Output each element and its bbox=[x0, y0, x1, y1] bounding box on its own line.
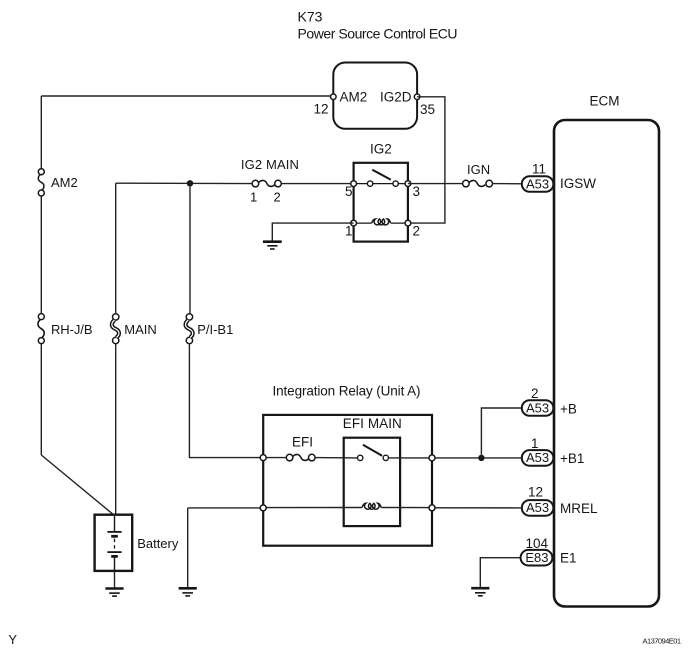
svg-text:IG2D: IG2D bbox=[380, 90, 412, 105]
pin 12 of ECU (AM2) bbox=[314, 90, 368, 117]
wire E1 to ground bbox=[480, 558, 520, 587]
relay EFI MAIN coil bbox=[362, 503, 381, 509]
connector A53 pin 12 (MREL) bbox=[522, 485, 598, 517]
relay IG2 contact (pins 5-3) bbox=[345, 170, 420, 199]
svg-text:K73: K73 bbox=[298, 9, 323, 25]
svg-text:1: 1 bbox=[250, 190, 257, 205]
relay EFI MAIN box bbox=[343, 416, 402, 526]
svg-text:AM2: AM2 bbox=[51, 175, 78, 190]
svg-text:+B: +B bbox=[560, 402, 577, 417]
svg-text:1: 1 bbox=[531, 436, 539, 451]
svg-text:3: 3 bbox=[413, 184, 421, 199]
svg-text:IG2: IG2 bbox=[370, 142, 392, 157]
fuse EFI bbox=[286, 435, 315, 461]
svg-text:EFI: EFI bbox=[292, 435, 313, 450]
svg-text:5: 5 bbox=[345, 184, 353, 199]
svg-text:P/I-B1: P/I-B1 bbox=[197, 322, 233, 337]
svg-text:RH-J/B: RH-J/B bbox=[51, 322, 93, 337]
svg-text:2: 2 bbox=[531, 386, 539, 401]
ground (IG2 relay coil) bbox=[263, 242, 282, 249]
svg-text:IG2 MAIN: IG2 MAIN bbox=[241, 157, 299, 172]
svg-text:E1: E1 bbox=[560, 551, 577, 566]
svg-text:AM2: AM2 bbox=[340, 90, 368, 105]
svg-text:2: 2 bbox=[413, 223, 421, 238]
fuse AM2 bbox=[38, 169, 77, 196]
label K73 / Power Source Control ECU title bbox=[298, 9, 458, 42]
ground (MREL circuit) bbox=[179, 588, 197, 596]
wire EFI row (through relay to +B1) bbox=[263, 457, 522, 459]
wire AM2 feed row (horizontal to IG2 MAIN / relay) bbox=[116, 182, 354, 184]
wire from ECU pin 35 (IG2D) down to IG2 relay coil pin 2 bbox=[408, 97, 445, 223]
svg-text:EFI MAIN: EFI MAIN bbox=[343, 416, 402, 431]
svg-text:A137094E01: A137094E01 bbox=[643, 637, 682, 646]
wire MREL row bbox=[188, 507, 522, 509]
svg-text:IGN: IGN bbox=[467, 162, 490, 177]
svg-text:ECM: ECM bbox=[590, 94, 620, 109]
svg-text:IGSW: IGSW bbox=[560, 176, 596, 191]
connector E83 pin 104 (E1) bbox=[521, 536, 577, 566]
node junction +B / +B1 bbox=[478, 455, 484, 461]
svg-text:12: 12 bbox=[528, 485, 543, 500]
wire P/I-B1 bus vertical bbox=[189, 183, 263, 457]
fusible link MAIN bbox=[112, 314, 157, 344]
svg-text:A53: A53 bbox=[526, 500, 549, 515]
wire MAIN bus vertical bbox=[115, 183, 117, 515]
svg-text:Integration Relay (Unit A): Integration Relay (Unit A) bbox=[273, 384, 421, 399]
svg-text:A53: A53 bbox=[526, 400, 549, 415]
svg-text:MREL: MREL bbox=[560, 501, 598, 516]
svg-text:A53: A53 bbox=[526, 450, 549, 465]
svg-text:Power Source Control ECU: Power Source Control ECU bbox=[298, 26, 458, 42]
connector A53 pin 11 (IGSW) bbox=[522, 162, 596, 192]
ECU K73 box (Power Source Control ECU) bbox=[333, 63, 417, 129]
svg-text:Battery: Battery bbox=[137, 536, 179, 551]
wire battery to ground bbox=[114, 571, 116, 588]
svg-text:A53: A53 bbox=[526, 176, 549, 191]
ground (battery) bbox=[105, 589, 123, 597]
relay EFI MAIN contact bbox=[358, 445, 389, 461]
svg-text:E83: E83 bbox=[525, 550, 548, 565]
fusible link P/I-B1 bbox=[186, 314, 234, 344]
relay IG2 coil (pins 1-2) bbox=[345, 219, 420, 238]
svg-text:11: 11 bbox=[532, 162, 546, 177]
fuse IGN bbox=[463, 162, 493, 187]
pin 35 of ECU (IG2D) bbox=[380, 90, 435, 118]
svg-text:Y: Y bbox=[8, 632, 17, 647]
wire left bus vertical bbox=[40, 96, 42, 455]
wire IGN row from IG2 pin 3 to A53 bbox=[408, 183, 524, 185]
fuse RH-J/B (fusible link) bbox=[38, 314, 93, 344]
battery bbox=[95, 515, 179, 571]
svg-text:104: 104 bbox=[526, 536, 549, 551]
node junction P/I-B1 tap bbox=[187, 180, 193, 186]
svg-text:12: 12 bbox=[314, 102, 329, 117]
wire MREL ground drop bbox=[187, 508, 189, 587]
wire from ECU pin 12 to left bus bbox=[41, 95, 333, 97]
integration relay outer box bbox=[263, 415, 432, 546]
connector A53 pin 2 (+B) bbox=[522, 386, 577, 417]
wire IG2 pin 1 to ground bbox=[272, 223, 353, 241]
svg-text:MAIN: MAIN bbox=[124, 322, 157, 337]
connector A53 pin 1 (+B1) bbox=[522, 436, 585, 466]
svg-text:2: 2 bbox=[274, 190, 281, 205]
fuse IG2 MAIN bbox=[241, 157, 299, 205]
svg-text:+B1: +B1 bbox=[560, 451, 584, 466]
wire junction up to +B bbox=[481, 408, 521, 458]
wire diagonal from left bus to battery bbox=[41, 455, 113, 515]
ECM box bbox=[554, 120, 659, 607]
ground (E1) bbox=[471, 588, 489, 596]
svg-text:35: 35 bbox=[420, 102, 435, 117]
svg-text:1: 1 bbox=[345, 223, 353, 238]
integration relay pins bbox=[260, 455, 435, 511]
relay IG2 bbox=[354, 142, 408, 242]
